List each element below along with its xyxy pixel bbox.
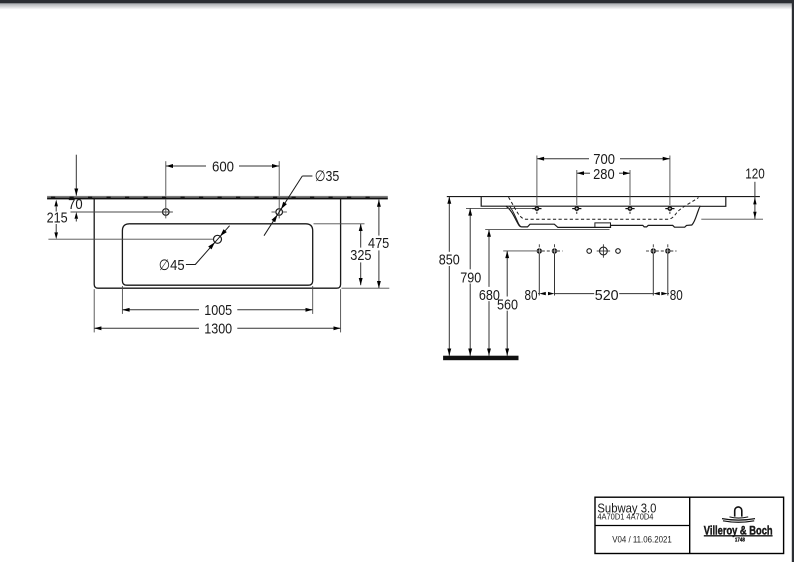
svg-text:1300: 1300 <box>204 321 232 338</box>
svg-text:1005: 1005 <box>204 302 232 319</box>
svg-text:850: 850 <box>439 252 460 269</box>
svg-text:560: 560 <box>497 297 518 314</box>
svg-text:80: 80 <box>670 287 683 304</box>
svg-text:1748: 1748 <box>735 538 745 544</box>
svg-text:80: 80 <box>525 287 538 304</box>
svg-text:215: 215 <box>47 209 68 226</box>
svg-text:∅45: ∅45 <box>159 257 185 274</box>
svg-text:120: 120 <box>745 166 765 183</box>
svg-text:325: 325 <box>350 247 371 264</box>
svg-text:600: 600 <box>212 158 234 175</box>
svg-text:790: 790 <box>460 269 481 286</box>
svg-text:4A70D1 4A70D4: 4A70D1 4A70D4 <box>597 512 654 521</box>
svg-text:70: 70 <box>68 196 83 213</box>
svg-text:520: 520 <box>595 287 619 304</box>
svg-text:V04 / 11.06.2021: V04 / 11.06.2021 <box>612 534 672 545</box>
svg-text:∅35: ∅35 <box>315 168 340 185</box>
svg-text:280: 280 <box>593 166 615 183</box>
